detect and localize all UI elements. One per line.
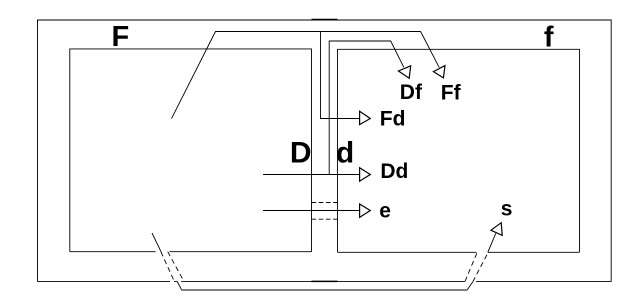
svg-text:d: d	[336, 137, 354, 170]
svg-text:e: e	[379, 199, 391, 222]
svg-text:Ff: Ff	[441, 81, 462, 104]
svg-text:s: s	[501, 198, 513, 221]
svg-text:F: F	[112, 21, 130, 53]
svg-text:Fd: Fd	[380, 107, 406, 130]
svg-text:Df: Df	[400, 81, 423, 104]
svg-text:f: f	[544, 21, 554, 53]
svg-text:D: D	[290, 136, 312, 169]
svg-text:Dd: Dd	[380, 160, 408, 183]
